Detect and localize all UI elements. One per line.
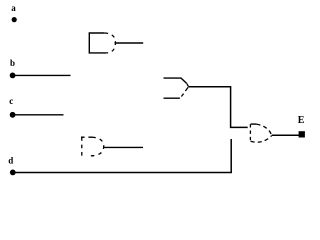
svg-text:E: E bbox=[298, 115, 305, 126]
OR gate U2 bottom edge bbox=[164, 97, 180, 99]
svg-text:c: c bbox=[9, 96, 13, 106]
node c terminal dot bbox=[10, 112, 16, 118]
OR gate U4 dashed lower curve bbox=[251, 136, 272, 143]
AND gate U1 (top) body bbox=[89, 33, 106, 53]
wire from node d to right riser up to OR gate U4 lower input bbox=[13, 139, 231, 173]
node a terminal dot bbox=[12, 17, 17, 22]
svg-text:a: a bbox=[11, 3, 16, 13]
node b terminal dot bbox=[10, 73, 16, 79]
wire from node c bbox=[13, 114, 64, 116]
OR gate U4 (right) solid top edge bbox=[251, 123, 257, 125]
wire from node b bbox=[13, 74, 71, 76]
wire from U1 output bbox=[115, 42, 144, 44]
OR gate U2 (middle) top edge bbox=[164, 78, 187, 83]
AND gate U1 dashed output arc bbox=[104, 33, 115, 53]
wire from U3 output bbox=[104, 146, 143, 148]
AND gate U3 dashed output arc bbox=[88, 137, 103, 156]
svg-text:d: d bbox=[8, 156, 13, 166]
wire from U4 output to E terminal bbox=[272, 134, 300, 136]
OR gate U4 dashed left back bbox=[249, 124, 251, 141]
wire from U2 output down to U4 upper input bbox=[188, 87, 247, 128]
OR gate U2 dashed nose bbox=[181, 84, 188, 97]
AND gate U3 (bottom) dashed back edges bbox=[81, 137, 92, 156]
node d terminal dot bbox=[10, 170, 16, 176]
OR gate U4 dashed upper nose curve bbox=[256, 124, 271, 135]
output E terminal square bbox=[299, 131, 305, 137]
svg-text:b: b bbox=[10, 58, 15, 68]
